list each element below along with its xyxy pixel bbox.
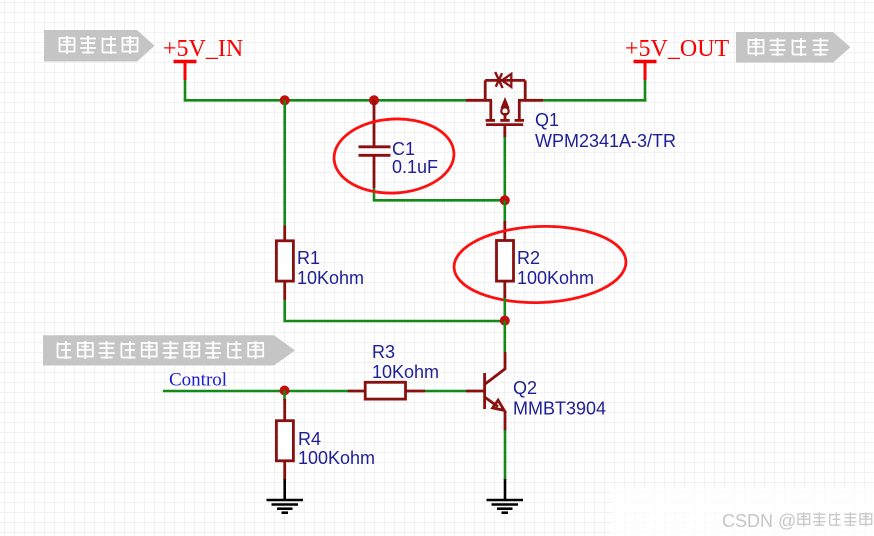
svg-text:+5V_OUT: +5V_OUT xyxy=(625,36,730,62)
Q1 body-diode cathode slash xyxy=(495,72,502,88)
wire: R1 bottom to gate-net rail xyxy=(285,300,506,321)
ground symbol (Q2) xyxy=(487,500,524,513)
wire: top rail from +5V_IN corner to Q1 source xyxy=(184,99,466,102)
Q1 gate line xyxy=(486,123,523,126)
svg-text:R1: R1 xyxy=(297,248,320,268)
wire: R4 stub (green) xyxy=(283,391,286,401)
resistor R1 top pin xyxy=(283,226,286,242)
Q1 channel bar left xyxy=(486,119,495,122)
junction: top rail / R1 branch xyxy=(280,95,290,105)
Q2 emitter arrow xyxy=(493,400,505,410)
resistor R4 bottom pin xyxy=(283,461,286,481)
svg-text:C1: C1 xyxy=(392,139,415,159)
ground lead (Q2) xyxy=(504,479,507,500)
svg-text:0.1uF: 0.1uF xyxy=(392,157,438,177)
Q1 substrate arrow loop xyxy=(501,107,508,114)
junction: top rail / C1 branch xyxy=(369,95,379,105)
resistor R1 body xyxy=(276,241,293,281)
Q2 collector diagonal xyxy=(485,352,505,384)
wire: R1 top branch (green) xyxy=(283,100,286,225)
resistor R4 body xyxy=(276,421,293,461)
Q1 body-diode left riser xyxy=(484,80,487,101)
resistor R4 top pin xyxy=(283,399,286,421)
svg-text:R4: R4 xyxy=(298,429,321,449)
wire: control net xyxy=(163,390,349,393)
resistor R3 body xyxy=(365,382,405,399)
capacitor C1 bottom pin xyxy=(373,155,376,188)
Q2 emitter diagonal xyxy=(485,397,498,407)
junction: gate net / C1 bottom xyxy=(500,195,510,205)
transistor Q1 (PMOS with body diode) xyxy=(466,72,543,125)
ground lead (R4) xyxy=(283,479,286,500)
Q1 gate pin (maroon) xyxy=(503,125,506,138)
svg-text:CSDN @: CSDN @ xyxy=(722,511,796,531)
resistor R2 top pin xyxy=(503,221,506,241)
junction: control / R4 branch xyxy=(280,386,290,396)
power port +5V_OUT pin (red part) xyxy=(644,62,647,81)
Q1 substrate arrow shaft xyxy=(504,113,507,119)
wire: R3 to Q2 base xyxy=(425,390,466,393)
wire: junction down to Q2 collector (green) xyxy=(503,321,506,352)
Q1 body-diode triangle xyxy=(502,74,512,87)
wire: C1 bottom to gate node xyxy=(374,188,505,200)
wire: gate net down to R2 (green) xyxy=(503,200,506,222)
Q1 channel bar middle xyxy=(500,119,509,122)
wire: gate net vertical (gate to junction) xyxy=(503,137,506,201)
watermark background xyxy=(612,487,874,536)
svg-text:+5V_IN: +5V_IN xyxy=(163,36,243,62)
capacitor C1 plates xyxy=(359,147,391,156)
capacitor C1 top pin xyxy=(373,100,376,147)
wire: Q2 emitter to ground (green) xyxy=(504,430,507,480)
Q1 source lead xyxy=(466,99,492,102)
resistor R3 right pin xyxy=(406,390,426,393)
Q1 body-diode right riser xyxy=(524,80,527,101)
Q1 drain lead xyxy=(518,99,543,102)
resistor R2 bottom pin xyxy=(503,281,506,298)
Q1 channel stub right xyxy=(518,100,521,119)
Q2 base bar xyxy=(483,373,486,409)
Q1 substrate arrow head xyxy=(501,99,508,108)
svg-text:WPM2341A-3/TR: WPM2341A-3/TR xyxy=(535,131,676,151)
wire: +5V_OUT vertical drop (green part) xyxy=(644,79,647,102)
svg-text:Q1: Q1 xyxy=(535,110,559,130)
resistor R3 left pin xyxy=(348,390,366,393)
wire: R2 bottom to base junction xyxy=(503,298,506,321)
Q1 channel bar right xyxy=(515,119,524,122)
svg-text:Control: Control xyxy=(169,370,227,391)
power port +5V_IN pin (red part) xyxy=(184,62,187,81)
Q1 body-diode top line xyxy=(485,79,525,82)
resistor R1 bottom pin xyxy=(283,281,286,300)
transistor Q2 (NPN) xyxy=(466,352,505,431)
wire: +5V_IN vertical drop (green part) xyxy=(184,79,187,102)
banner: 电源输入 xyxy=(44,30,155,62)
ground symbol (R4) xyxy=(267,500,304,513)
wire: Q1 drain to output corner xyxy=(543,99,646,102)
junction: R1/R2/collector node xyxy=(500,316,510,326)
Q2 base pin xyxy=(466,390,485,393)
Q2 emitter lead xyxy=(504,411,507,431)
watermark CJK glyphs xyxy=(798,512,872,526)
power port +5V_IN bar xyxy=(174,60,197,63)
power port +5V_OUT bar xyxy=(634,60,657,63)
svg-text:R3: R3 xyxy=(372,342,395,362)
banner: 输入信号控制电源开关 xyxy=(43,335,295,365)
resistor R2 body xyxy=(497,241,514,282)
banner: 电源输出 xyxy=(736,32,851,63)
svg-text:MMBT3904: MMBT3904 xyxy=(513,399,606,419)
svg-text:100Kohm: 100Kohm xyxy=(517,268,594,288)
svg-text:100Kohm: 100Kohm xyxy=(298,448,375,468)
annotation ellipse around R2 xyxy=(453,224,628,306)
svg-text:10Kohm: 10Kohm xyxy=(297,268,364,288)
svg-text:R2: R2 xyxy=(517,248,540,268)
svg-text:10Kohm: 10Kohm xyxy=(372,362,439,382)
svg-text:Q2: Q2 xyxy=(513,378,537,398)
annotation ellipse around C1 xyxy=(332,116,456,196)
Q1 channel stub left xyxy=(489,100,492,119)
